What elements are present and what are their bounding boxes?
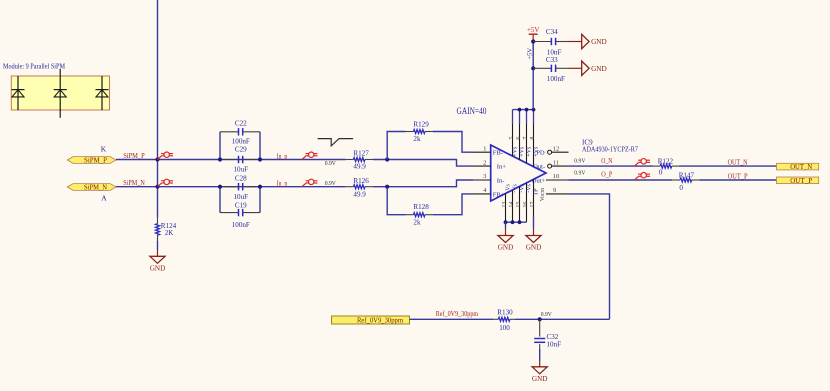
svg-text:OUT_P: OUT_P xyxy=(728,172,748,180)
junction In_p / R129 branch xyxy=(385,157,389,161)
label GAIN=40 xyxy=(457,107,487,117)
directive marker on In_n xyxy=(302,179,318,187)
wire R129 branch right to pin 1 xyxy=(433,132,473,153)
svg-text:49.9: 49.9 xyxy=(353,163,366,171)
wire R129 branch left xyxy=(387,132,405,160)
port OUT_N xyxy=(777,163,819,171)
svg-text:13: 13 xyxy=(502,202,508,208)
svg-text:Module: 9 Parallel SiPM: Module: 9 Parallel SiPM xyxy=(3,61,65,70)
capacitor C28 10uF xyxy=(220,175,260,201)
pins 5-8 +Vs of IC9 (vertical) xyxy=(509,110,539,167)
svg-text:GND: GND xyxy=(532,375,548,383)
svg-text:1: 1 xyxy=(483,145,486,152)
pins 13-17 -Vs/TP of IC9 (vertical) xyxy=(502,179,539,222)
junction C32 tee xyxy=(538,317,542,321)
wire R124 to ground xyxy=(157,241,159,250)
svg-text:15: 15 xyxy=(516,202,522,208)
svg-text:C34: C34 xyxy=(546,28,558,36)
resistor R124 2K xyxy=(156,218,177,241)
net label OUT_P xyxy=(728,172,748,180)
svg-text:0: 0 xyxy=(659,169,663,177)
svg-text:R126: R126 xyxy=(353,177,369,185)
svg-text:In-: In- xyxy=(497,177,505,184)
pin 9 Vocm of IC9 xyxy=(540,187,569,201)
net label O_N xyxy=(601,157,612,165)
pin 1 FB- of IC9 xyxy=(473,145,503,156)
wire +5V riser xyxy=(532,42,534,110)
net label In_n xyxy=(277,180,288,188)
svg-text:0.9V: 0.9V xyxy=(325,180,336,187)
wire cap bracket C28/C19 right rail xyxy=(259,187,261,213)
svg-text:Out-: Out- xyxy=(533,164,545,171)
op-amp IC9 body (triangle) xyxy=(491,145,546,201)
svg-text:7: 7 xyxy=(523,137,529,140)
junction C33 tee xyxy=(531,66,535,70)
wire O_N from pin 11 xyxy=(569,165,654,167)
svg-text:C29: C29 xyxy=(235,146,247,154)
svg-text:-Vs: -Vs xyxy=(512,183,518,192)
resistor R130 100 xyxy=(493,308,515,331)
svg-text:17: 17 xyxy=(530,202,536,208)
capacitor C19 100nF xyxy=(220,201,260,229)
voltage annotation 0.9V on Vocm net xyxy=(541,311,552,318)
port OUT_P xyxy=(777,177,819,185)
capacitor C29 10uF xyxy=(220,146,260,174)
net label SiPM_P xyxy=(123,152,145,160)
wire C32 to ground xyxy=(539,349,541,361)
svg-text:A: A xyxy=(101,194,107,203)
wire R128 branch right to pin 4 xyxy=(433,194,473,215)
junction +Vs bus pin7 xyxy=(525,108,529,112)
resistor R128 2k xyxy=(406,203,434,226)
junction SiPM_N / vertical wire xyxy=(155,185,159,189)
svg-text:6: 6 xyxy=(516,137,522,140)
resistor R129 2k xyxy=(406,120,434,143)
svg-text:GND: GND xyxy=(591,38,607,46)
svg-text:0.9V: 0.9V xyxy=(541,311,552,318)
svg-text:R128: R128 xyxy=(413,203,429,211)
svg-text:TP: TP xyxy=(533,188,539,196)
svg-text:FB+: FB+ xyxy=(493,191,505,198)
directive marker on SiPM_P xyxy=(158,152,174,160)
svg-text:OUT_P: OUT_P xyxy=(790,177,812,185)
wire SiPM_P to step xyxy=(373,160,473,167)
pin 2 In+ of IC9 xyxy=(473,159,506,170)
diode D_right of SiPM module xyxy=(96,76,109,110)
svg-text:100nF: 100nF xyxy=(232,138,250,146)
svg-text:-Vs: -Vs xyxy=(519,183,525,192)
port SiPM_P xyxy=(67,157,116,165)
svg-text:2K: 2K xyxy=(165,229,175,237)
svg-text:C22: C22 xyxy=(235,119,247,127)
svg-text:In_n: In_n xyxy=(277,180,288,188)
svg-text:OUT_N: OUT_N xyxy=(728,159,748,167)
wire Vocm to reference net xyxy=(569,194,610,319)
voltage annotation 0.9V on In_n xyxy=(325,180,336,187)
wire cap bracket C28/C19 left rail xyxy=(219,187,221,213)
svg-text:OUT_N: OUT_N xyxy=(790,163,812,171)
junction C29 left xyxy=(218,157,222,161)
svg-text:Ref_0V9_30ppm: Ref_0V9_30ppm xyxy=(436,310,479,318)
ground GND right of C34 xyxy=(568,34,607,48)
svg-text:0: 0 xyxy=(679,184,683,192)
svg-text:O_N: O_N xyxy=(601,157,612,165)
wire cap bracket C22/C29 left rail xyxy=(219,132,221,160)
wire Ref_0V9_30ppm net xyxy=(410,318,494,320)
svg-text:8: 8 xyxy=(530,137,536,140)
diode D_left of SiPM module xyxy=(12,76,25,110)
svg-text:C19: C19 xyxy=(235,201,247,209)
ground GND below R124 xyxy=(150,250,166,272)
svg-text:0.9V: 0.9V xyxy=(574,169,585,176)
junction -Vs bus pin14 xyxy=(511,220,515,224)
directive marker on O_N xyxy=(635,159,651,167)
svg-text:10nF: 10nF xyxy=(547,340,562,348)
svg-text:O_P: O_P xyxy=(601,171,612,179)
svg-text:12: 12 xyxy=(553,145,559,152)
op-amp IC9 designator xyxy=(582,138,593,146)
wire O_P from pin 10 xyxy=(569,179,673,181)
junction C28 left xyxy=(218,185,222,189)
waveform annotation (pulse shape) xyxy=(318,139,354,146)
svg-text:GND: GND xyxy=(591,65,607,73)
svg-text:R130: R130 xyxy=(497,308,513,316)
svg-text:In_p: In_p xyxy=(277,152,288,160)
svg-text:+Vs: +Vs xyxy=(519,146,525,157)
pin 11 Out- of IC9 (with bubble) xyxy=(533,159,568,170)
svg-text:49.9: 49.9 xyxy=(353,191,366,199)
svg-text:11: 11 xyxy=(553,159,559,166)
svg-text:GND: GND xyxy=(498,244,514,252)
svg-text:In+: In+ xyxy=(497,164,506,171)
wire pin17 to ground xyxy=(533,216,535,229)
wire vertical net from top at x=157.5 xyxy=(157,0,159,218)
label A (anode) xyxy=(101,194,107,203)
ground GND below pin 17 xyxy=(526,229,542,252)
svg-text:SiPM_N: SiPM_N xyxy=(123,179,145,187)
net label +5V (vertical) xyxy=(527,48,534,60)
junction In_n / R128 branch xyxy=(385,185,389,189)
ground GND below C32 xyxy=(532,361,548,383)
junction -Vs bus pin13 xyxy=(504,220,508,224)
svg-text:10: 10 xyxy=(553,173,559,180)
resistor R126 49.9 xyxy=(346,177,373,199)
net label SiPM_N xyxy=(123,179,145,187)
wire SiPM_P net xyxy=(116,159,346,161)
svg-text:Out+: Out+ xyxy=(532,178,546,185)
resistor R147 0 xyxy=(672,172,699,192)
svg-text:16: 16 xyxy=(523,202,529,208)
svg-text:+5V: +5V xyxy=(527,48,534,60)
svg-text:C33: C33 xyxy=(546,56,558,64)
svg-text:C28: C28 xyxy=(235,175,247,183)
junction +Vs bus pin8 xyxy=(532,108,536,112)
svg-text:2k: 2k xyxy=(413,135,421,143)
svg-text:14: 14 xyxy=(509,202,515,208)
op-amp IC9 part number xyxy=(582,146,638,154)
wire O_N to OUT_N port xyxy=(679,165,777,167)
svg-text:100: 100 xyxy=(499,324,510,332)
net label In_p xyxy=(277,152,288,160)
pin 3 In- of IC9 xyxy=(473,173,505,184)
SiPM module frame (Module: 9 Parallel SiPM) xyxy=(3,61,110,110)
svg-text:100nF: 100nF xyxy=(547,75,565,83)
capacitor C33 100nF xyxy=(533,56,568,83)
svg-text:GND: GND xyxy=(526,244,542,252)
wire SiPM_N net xyxy=(116,186,346,188)
junction -Vs bus pin15 xyxy=(518,220,522,224)
junction C28 right xyxy=(258,185,262,189)
svg-text:FB-: FB- xyxy=(493,150,503,157)
directive marker on O_P xyxy=(635,173,651,181)
ground GND below -Vs bus xyxy=(498,228,514,252)
svg-text:-Vs: -Vs xyxy=(505,183,511,192)
voltage annotation 0.9V on O_P xyxy=(574,169,585,176)
wire +Vs supply bus xyxy=(513,109,534,111)
svg-text:SiPM_N: SiPM_N xyxy=(84,184,107,192)
pin 10 Out+ of IC9 xyxy=(532,173,569,185)
ground GND right of C33 xyxy=(568,61,607,75)
wire -Vs bus to ground xyxy=(505,222,507,228)
svg-text:0.9V: 0.9V xyxy=(325,160,336,167)
port SiPM_N xyxy=(67,184,116,192)
svg-text:R147: R147 xyxy=(679,172,695,180)
svg-text:+Vs: +Vs xyxy=(526,146,532,157)
svg-text:+5V: +5V xyxy=(527,26,540,34)
power port +5V xyxy=(527,26,540,41)
wire O_P to OUT_P port xyxy=(699,179,776,181)
svg-text:0.9V: 0.9V xyxy=(574,158,585,165)
svg-text:SiPM_P: SiPM_P xyxy=(123,152,145,160)
svg-text:9: 9 xyxy=(553,187,556,194)
capacitor C34 10nF xyxy=(533,28,568,56)
wire R128 branch left xyxy=(387,187,405,215)
svg-text:Ref_0V9_30ppm: Ref_0V9_30ppm xyxy=(357,317,404,324)
voltage annotation 0.9V on In_p xyxy=(325,160,336,167)
pin 4 FB+ of IC9 xyxy=(473,187,505,198)
svg-text:10uF: 10uF xyxy=(234,166,249,174)
net label OUT_N xyxy=(728,159,748,167)
wire SiPM_N to step xyxy=(373,180,473,187)
svg-text:SiPM_P: SiPM_P xyxy=(84,157,107,165)
svg-text:2k: 2k xyxy=(413,219,421,227)
svg-text:100nF: 100nF xyxy=(232,221,250,229)
svg-text:3: 3 xyxy=(483,173,486,180)
pin 12 PD of IC9 (with bubble) xyxy=(536,145,568,156)
svg-text:+Vs: +Vs xyxy=(512,146,518,157)
capacitor C32 10nF xyxy=(534,319,561,349)
port Ref_0V9_30ppm (sheet entry) xyxy=(332,316,410,324)
svg-text:5: 5 xyxy=(509,137,515,140)
svg-text:10uF: 10uF xyxy=(234,193,249,201)
voltage annotation 0.9V on O_N xyxy=(574,158,585,165)
svg-text:ADA4930-1YCPZ-R7: ADA4930-1YCPZ-R7 xyxy=(582,146,638,154)
svg-text:K: K xyxy=(101,144,107,153)
resistor R122 0 xyxy=(653,158,679,177)
directive marker on In_p xyxy=(302,152,318,160)
junction C29 right xyxy=(258,157,262,161)
svg-text:R129: R129 xyxy=(413,120,429,128)
directive marker on SiPM_N xyxy=(158,179,174,187)
wire -Vs supply bus xyxy=(506,221,527,223)
net label O_P xyxy=(601,171,612,179)
svg-text:2: 2 xyxy=(483,159,486,166)
junction C34 tee xyxy=(531,39,535,43)
svg-text:PD: PD xyxy=(536,150,545,157)
svg-text:Vocm: Vocm xyxy=(540,187,546,201)
net label Ref_0V9_30ppm xyxy=(436,310,479,318)
diode D_mid of SiPM module xyxy=(54,69,67,118)
svg-text:-Vs: -Vs xyxy=(526,183,532,192)
svg-text:R122: R122 xyxy=(658,158,674,166)
svg-text:GAIN=40: GAIN=40 xyxy=(457,107,487,117)
resistor R127 49.9 xyxy=(346,150,373,171)
junction SiPM_P / vertical wire xyxy=(155,157,159,161)
wire R130 to Vocm corner xyxy=(515,318,610,320)
junction +Vs bus pin6 xyxy=(518,108,522,112)
wire cap bracket C22/C29 right rail xyxy=(259,132,261,160)
svg-text:GND: GND xyxy=(150,264,166,272)
capacitor C22 100nF xyxy=(220,119,260,145)
label K (cathode) xyxy=(101,144,107,153)
svg-text:R127: R127 xyxy=(353,150,369,158)
